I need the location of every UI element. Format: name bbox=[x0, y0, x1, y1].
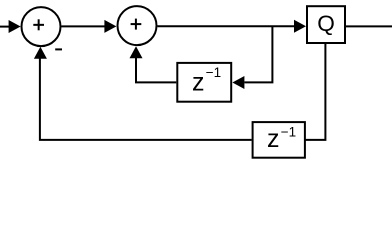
arrowhead into quantizer Q left bbox=[294, 20, 306, 33]
minus label at summer S1 bbox=[55, 48, 62, 50]
plus sign of summer S1 bbox=[33, 19, 44, 30]
wire: summer S2 to quantizer Q bbox=[158, 25, 296, 27]
wire: feedback from Q bottom down to delay Z2 bbox=[305, 44, 326, 140]
wire: delay Z1 output up into summer S2 bbox=[136, 57, 176, 82]
delay block Z2 bbox=[253, 122, 305, 158]
summer S1 (adder circle) bbox=[22, 7, 61, 46]
quantizer Q block bbox=[307, 6, 345, 43]
wire: input line into summer S1 bbox=[0, 26, 10, 28]
value label z^-1 of Z1 bbox=[192, 65, 221, 96]
summer S2 (adder circle) bbox=[118, 6, 157, 45]
delay block Z1 bbox=[177, 63, 231, 102]
arrowhead into delay Z1 right bbox=[232, 76, 244, 89]
plus sign of summer S2 bbox=[131, 19, 142, 30]
arrowhead into summer S1 left bbox=[9, 20, 21, 33]
wire: summer S1 to summer S2 bbox=[62, 25, 106, 27]
wire: quantizer Q output bbox=[346, 25, 392, 27]
wire: branch down to delay Z1 input bbox=[245, 26, 273, 82]
svg-text:z: z bbox=[192, 68, 205, 96]
arrowhead into summer S2 bottom bbox=[130, 46, 143, 58]
arrowhead into summer S2 left bbox=[104, 20, 116, 33]
svg-text:z: z bbox=[267, 125, 280, 153]
arrowhead into summer S1 bottom bbox=[34, 47, 47, 59]
svg-text:−1: −1 bbox=[281, 124, 296, 139]
wire: delay Z2 output left and up into summer S1 bbox=[40, 58, 252, 140]
svg-text:−1: −1 bbox=[206, 65, 221, 80]
svg-text:Q: Q bbox=[317, 11, 335, 36]
value label z^-1 of Z2 bbox=[267, 124, 296, 153]
